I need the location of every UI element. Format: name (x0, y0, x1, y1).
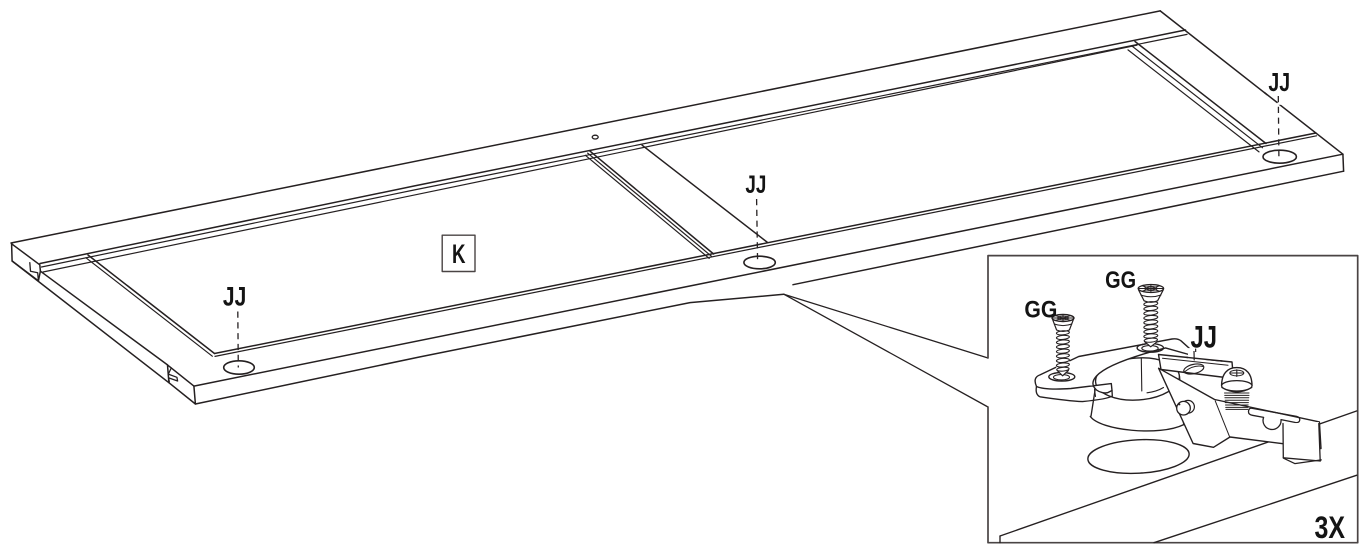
inset: big 35mm oval hole on surface (1087, 437, 1190, 476)
panel K: right end rail inner edge line 1 (1135, 42, 1266, 144)
panel K: front rail inner edge (215, 133, 1316, 354)
panel K: bottom front edge right segment (793, 171, 1344, 285)
inset: GG screw 1 head cone (1053, 319, 1074, 331)
mask under JJ right (1267, 92, 1292, 105)
panel K: right end rail inner edge line 3 (1128, 50, 1259, 152)
inset: GG screw 1 head star (1053, 315, 1074, 321)
inset: plate thickness lip front (1036, 387, 1112, 402)
panel K: right end outer edge repaint under JJ (1265, 93, 1278, 103)
inset: GG screw 1 threads (1056, 330, 1069, 371)
K label box (442, 235, 475, 271)
mask under JJ middle (744, 194, 769, 207)
inset: flange slot outer (1183, 362, 1205, 376)
inset: plate screw hole 2 inner (1142, 346, 1158, 352)
inset: hinge cup rim ellipse (1094, 355, 1181, 403)
panel K: back outer edge (11, 11, 1160, 243)
leader dash left JJ (237, 312, 240, 368)
inset: dome screw base rim (1222, 381, 1252, 391)
inset: plate screw hole 2 outer (1137, 344, 1163, 353)
panel K: left rail outer silhouette (12, 261, 169, 383)
inset: flange slot inner edge (1185, 366, 1203, 371)
svg-text:GG: GG (1105, 267, 1136, 294)
panel K: back rail groove line 1 (42, 34, 1188, 267)
inset: bracket U-channel outer face (1283, 422, 1321, 461)
leader dash middle JJ (757, 199, 758, 263)
inset: dome screw drive cross (1230, 370, 1244, 377)
inset: bracket U-channel fold edge (1319, 424, 1320, 462)
inset: bracket pin rear (1182, 400, 1195, 413)
inset: GG screw 1 head inner ring (1058, 316, 1069, 320)
inset: bracket U-channel bottom edge (1283, 458, 1320, 461)
inset: GG screw 2 head cone (1139, 290, 1164, 302)
inset: dome screw collar arc (1222, 388, 1252, 393)
inset: cup interior crease (1140, 358, 1143, 391)
panel K: front rail inner groove line (215, 136, 1317, 357)
panel K: middle crossbar left edge line 3 (585, 155, 709, 258)
inset: mounting plate top face (1035, 339, 1199, 393)
inset: bracket flange on plate (1159, 355, 1234, 379)
inset: bracket keyhole slot (1248, 408, 1299, 429)
panel K: front rail cap rabbet profile (168, 368, 177, 382)
inset: GG screw 2 threads (1144, 301, 1158, 343)
panel K: middle crossbar left edge line 1 (590, 151, 714, 254)
panel K: bottom front edge left segment (195, 294, 783, 404)
inset: GG screw 2 head (1138, 285, 1163, 293)
inset: hinge cup bottom arc (1090, 416, 1183, 431)
inset: JJ bracket bent plate and arm (1159, 368, 1321, 448)
inset: GG screw 1 head (1052, 315, 1074, 322)
callout wedge upper line (784, 294, 988, 358)
inset: GG screw 2 shank silhouette (1144, 300, 1158, 347)
inset: hinge cup left wall (1091, 391, 1095, 417)
inset: flange crease (1163, 358, 1229, 365)
inset: GG screw 1 cone ring (1054, 324, 1071, 326)
inset: cup interior floor hint (1147, 388, 1164, 393)
svg-text:K: K (452, 239, 466, 269)
inset: bracket U-channel lip (1284, 458, 1322, 463)
small pilot hole on back rail (592, 135, 598, 139)
inset: GG screw 2 head star (1139, 285, 1163, 292)
mask under JJ inset (1188, 348, 1220, 360)
svg-text:3X: 3X (1315, 509, 1346, 545)
panel K: middle crossbar right edge (642, 145, 767, 242)
inset: bracket pin front (1177, 401, 1191, 415)
inset: GG screw 2 tip (1145, 342, 1157, 347)
inset box border (988, 256, 1358, 543)
leader dash right JJ (1277, 96, 1280, 157)
inset: hinge cup right wall (1180, 377, 1184, 425)
inset: dome screw threads (1225, 393, 1250, 409)
panel K: front outer edge of top face (194, 154, 1343, 386)
JJ cam hole middle (744, 256, 775, 269)
panel K: front rail left end cap (168, 365, 196, 404)
inset: flange hook lip repaint (1193, 351, 1195, 360)
panel K: back rail left end cap (12, 244, 41, 281)
inset: bracket bend crease (1215, 401, 1229, 437)
JJ cam hole left (224, 361, 255, 374)
inset: plate thickness lip inner line (1095, 389, 1096, 396)
panel K: back rail inner edge (40, 30, 1186, 264)
inset: GG screw 2 cone ring (1141, 295, 1161, 297)
inset: plate screw hole 1 inner (1054, 375, 1070, 380)
inset: GG screw 1 tip (1057, 371, 1068, 376)
inset: flange hook lip (1193, 351, 1195, 360)
inset: dome screw drive oval (1230, 370, 1244, 376)
panel K: right end rail inner edge line 2 (1132, 46, 1263, 148)
panel K: middle crossbar left edge line 2 (588, 153, 712, 256)
inset: GG screw 2 head inner ring (1145, 287, 1158, 291)
svg-text:GG: GG (1024, 297, 1057, 324)
inset: panel surface front edge E1 (1000, 411, 1357, 536)
inset: bracket U-channel left edge (1282, 424, 1284, 458)
inset: panel bottom edge E2 (1154, 475, 1357, 543)
panel K: back rail cap rabbet profile (30, 263, 39, 281)
inset: plate screw hole 1 outer (1049, 373, 1075, 382)
inset: flange top edge repaint under JJ (1186, 357, 1222, 361)
inset: JJ label leader (1195, 349, 1197, 352)
panel K: left rail inner groove line (86, 258, 212, 356)
inset: GG screw 1 shank silhouette (1056, 329, 1069, 376)
panel K: left rail top outer edge (40, 271, 167, 365)
inset: panel corner tick at box bottom (999, 536, 1001, 543)
panel K: right end cap near vertical edge (1342, 154, 1345, 171)
callout wedge lower line (784, 294, 988, 407)
JJ cam hole right (1263, 150, 1296, 163)
inset: bracket pin dot (1178, 403, 1180, 405)
panel K: right end outer edge (1160, 11, 1343, 154)
inset: dome screw head (1222, 368, 1252, 386)
panel K: back rail groove line 2 (43, 45, 1137, 272)
panel K: left rail inner edge (88, 255, 215, 354)
mask under JJ left (221, 306, 249, 320)
